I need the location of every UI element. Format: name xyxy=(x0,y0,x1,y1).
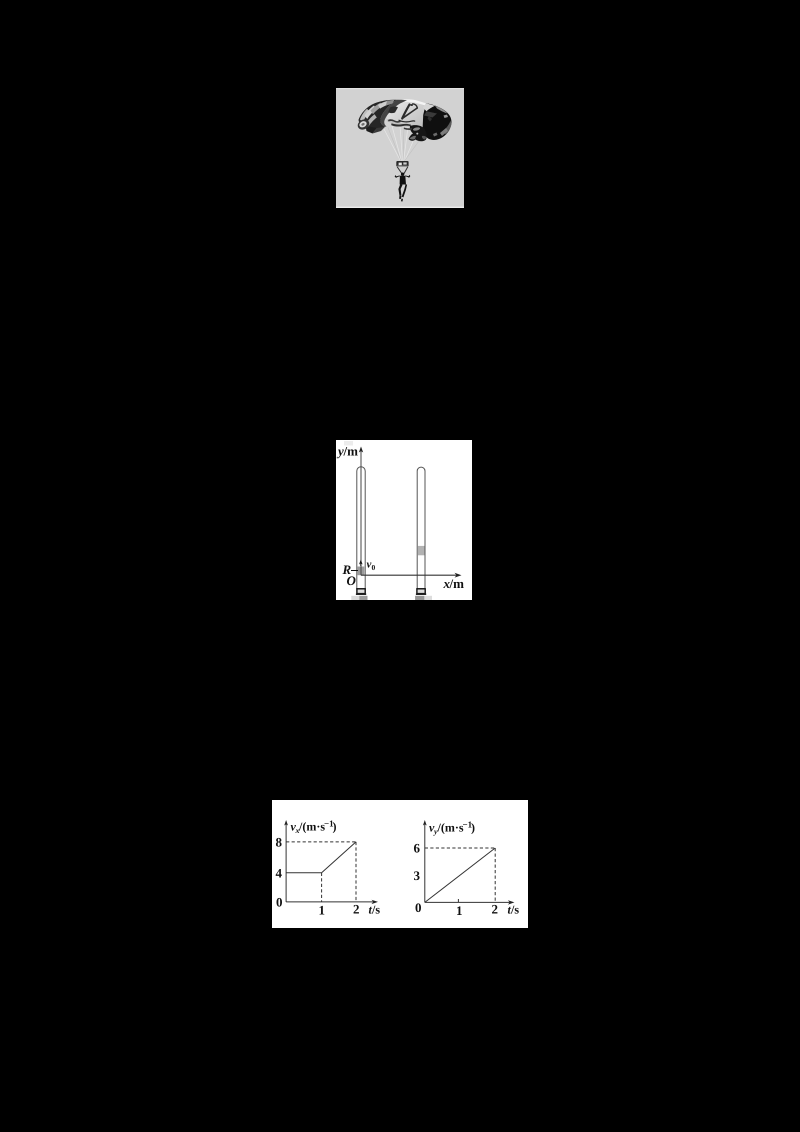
svg-text:/(m·s: /(m·s xyxy=(437,821,464,835)
svg-text:2: 2 xyxy=(353,902,360,917)
svg-text:1: 1 xyxy=(319,903,326,918)
svg-text:0: 0 xyxy=(372,563,376,572)
svg-text:1: 1 xyxy=(456,903,463,918)
svg-text:/m: /m xyxy=(343,444,359,459)
svg-text:/s: /s xyxy=(371,903,380,917)
svg-text:8: 8 xyxy=(276,835,283,850)
svg-text:6: 6 xyxy=(414,841,421,856)
svg-text:4: 4 xyxy=(276,866,283,881)
svg-text:/m: /m xyxy=(449,576,465,591)
svg-text:): ) xyxy=(471,821,475,835)
svg-text:): ) xyxy=(333,820,337,834)
svg-text:O: O xyxy=(347,573,357,588)
svg-text:/s: /s xyxy=(510,903,519,917)
svg-text:0: 0 xyxy=(415,900,422,915)
svg-text:2: 2 xyxy=(492,902,499,917)
svg-text:0: 0 xyxy=(276,895,283,910)
svg-text:3: 3 xyxy=(414,868,421,883)
svg-text:/(m·s: /(m·s xyxy=(298,820,325,834)
